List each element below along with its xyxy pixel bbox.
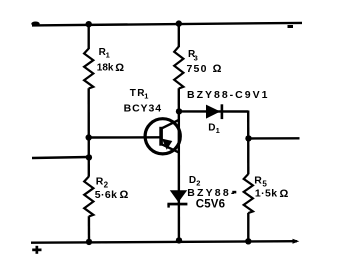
svg-text:18k: 18k	[97, 63, 114, 74]
svg-text:Ω: Ω	[120, 189, 129, 201]
svg-text:R: R	[254, 174, 262, 186]
svg-text:1: 1	[144, 92, 148, 101]
svg-text:1·5k: 1·5k	[255, 188, 278, 200]
svg-text:3: 3	[194, 53, 198, 62]
svg-text:D: D	[208, 122, 215, 133]
svg-text:BZY88-C9V1: BZY88-C9V1	[187, 89, 269, 101]
svg-text:5·6k: 5·6k	[95, 189, 118, 201]
svg-text:D: D	[189, 175, 196, 186]
svg-text:1: 1	[216, 126, 220, 135]
svg-text:Ω: Ω	[213, 63, 222, 75]
svg-text:1: 1	[106, 51, 110, 60]
svg-text:R: R	[96, 175, 104, 187]
svg-text:Ω: Ω	[280, 188, 289, 200]
svg-text:BZY88-: BZY88-	[187, 187, 236, 199]
svg-text:BCY34: BCY34	[124, 102, 162, 114]
svg-text:C5V6: C5V6	[196, 198, 226, 210]
svg-text:Ω: Ω	[115, 62, 124, 74]
svg-text:750: 750	[187, 63, 208, 75]
